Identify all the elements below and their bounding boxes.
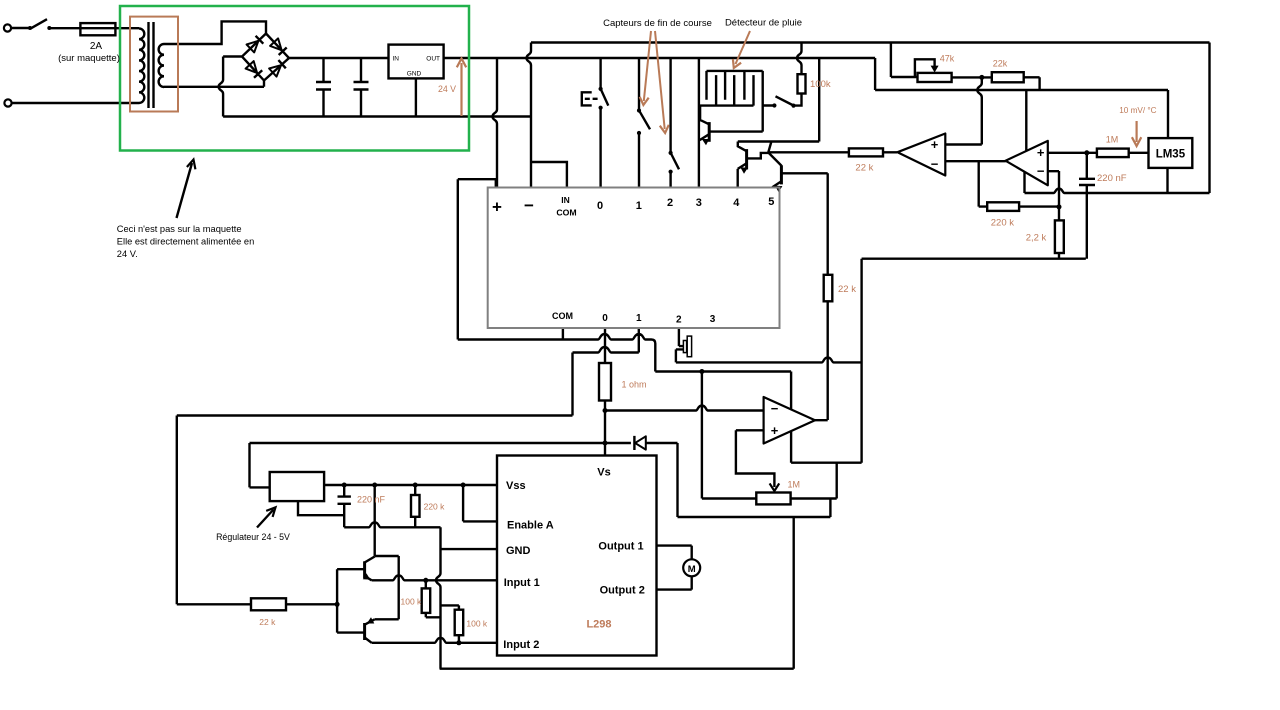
svg-text:1: 1: [636, 200, 642, 212]
svg-text:22k: 22k: [993, 59, 1008, 69]
svg-text:10 mV/ °C: 10 mV/ °C: [1119, 106, 1156, 115]
svg-text:Capteurs de fin de course: Capteurs de fin de course: [603, 18, 712, 29]
svg-text:100 k: 100 k: [401, 597, 423, 607]
svg-text:1M: 1M: [788, 480, 801, 490]
svg-text:−: −: [931, 157, 939, 172]
svg-text:COM: COM: [556, 207, 576, 217]
svg-text:5: 5: [768, 196, 774, 208]
svg-text:IN: IN: [393, 56, 400, 63]
svg-text:2,2 k: 2,2 k: [1026, 233, 1047, 244]
svg-text:Output 1: Output 1: [598, 541, 643, 553]
svg-text:+: +: [771, 423, 779, 438]
svg-text:COM: COM: [552, 311, 573, 321]
svg-text:Vs: Vs: [597, 467, 610, 479]
svg-text:24 V.: 24 V.: [117, 249, 138, 259]
svg-text:Input 2: Input 2: [503, 639, 539, 651]
svg-text:−: −: [771, 401, 779, 416]
svg-text:M: M: [688, 564, 696, 575]
svg-text:Détecteur de pluie: Détecteur de pluie: [725, 18, 802, 29]
svg-text:−: −: [1037, 164, 1045, 179]
svg-text:0: 0: [602, 313, 608, 324]
svg-text:+: +: [492, 198, 502, 217]
svg-text:1: 1: [636, 313, 642, 324]
svg-text:+: +: [1037, 145, 1045, 160]
svg-text:0: 0: [597, 200, 603, 212]
svg-text:22 k: 22 k: [855, 163, 873, 174]
svg-text:22 k: 22 k: [259, 617, 276, 627]
svg-text:Elle est directement alimentée: Elle est directement alimentée en: [117, 237, 254, 247]
svg-text:220 nF: 220 nF: [357, 495, 386, 505]
svg-text:Input 1: Input 1: [504, 577, 540, 589]
svg-text:(sur maquette): (sur maquette): [58, 53, 120, 64]
svg-text:Vss: Vss: [506, 480, 526, 492]
svg-text:Output 2: Output 2: [600, 585, 645, 597]
svg-text:24 V: 24 V: [438, 84, 456, 94]
svg-text:220 k: 220 k: [991, 218, 1014, 229]
svg-text:−: −: [524, 196, 534, 215]
svg-text:1M: 1M: [1106, 135, 1119, 145]
svg-text:3: 3: [696, 197, 702, 209]
svg-text:2: 2: [667, 197, 673, 209]
svg-text:2: 2: [676, 314, 682, 325]
svg-text:Régulateur 24 - 5V: Régulateur 24 - 5V: [216, 532, 290, 542]
svg-text:47k: 47k: [940, 54, 955, 64]
svg-text:220 nF: 220 nF: [1097, 173, 1127, 184]
svg-text:3: 3: [710, 314, 716, 325]
svg-text:GND: GND: [407, 71, 422, 78]
svg-text:4: 4: [733, 197, 740, 209]
svg-text:OUT: OUT: [426, 56, 440, 63]
svg-text:100 k: 100 k: [466, 619, 488, 629]
svg-text:+: +: [931, 137, 939, 152]
svg-text:Enable A: Enable A: [507, 520, 554, 532]
svg-text:1 ohm: 1 ohm: [622, 380, 647, 390]
svg-text:220 k: 220 k: [424, 502, 446, 512]
svg-text:LM35: LM35: [1156, 148, 1186, 160]
svg-text:100k: 100k: [810, 79, 831, 90]
svg-text:2A: 2A: [90, 41, 103, 52]
svg-text:IN: IN: [561, 195, 570, 205]
svg-text:L298: L298: [586, 619, 611, 631]
svg-text:22 k: 22 k: [838, 284, 856, 295]
svg-text:Ceci n'est pas sur la maquette: Ceci n'est pas sur la maquette: [117, 224, 242, 234]
svg-text:GND: GND: [506, 545, 531, 557]
